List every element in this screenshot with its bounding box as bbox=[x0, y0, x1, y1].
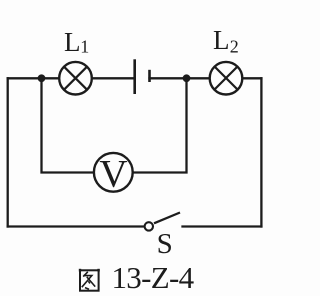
svg-text:2: 2 bbox=[230, 37, 239, 57]
battery cell: short plate bbox=[148, 70, 151, 82]
node junction A bbox=[38, 74, 46, 82]
wire bottom-left to switch bbox=[8, 225, 144, 227]
wire top-left from corner to battery long plate bbox=[8, 77, 134, 79]
caption character 图 bbox=[80, 269, 99, 291]
svg-text:1: 1 bbox=[80, 37, 89, 57]
switch S bbox=[145, 213, 180, 231]
svg-text:S: S bbox=[157, 228, 173, 260]
wire voltmeter branch bbox=[42, 78, 187, 172]
label L1 bbox=[64, 27, 89, 57]
wire left side bbox=[7, 78, 9, 226]
svg-text:V: V bbox=[99, 152, 127, 195]
wire right side bbox=[260, 78, 262, 226]
wire from battery short plate to right corner bbox=[150, 77, 262, 79]
node junction B bbox=[183, 74, 191, 82]
voltmeter V bbox=[94, 152, 133, 195]
label L2 bbox=[213, 25, 239, 57]
lamp L2 bbox=[210, 62, 243, 95]
wire bottom-right from switch to corner bbox=[183, 225, 262, 227]
svg-text:13-Z-4: 13-Z-4 bbox=[112, 260, 195, 295]
svg-text:L: L bbox=[213, 25, 230, 55]
battery cell: long plate bbox=[133, 59, 136, 94]
svg-text:L: L bbox=[64, 27, 81, 57]
lamp L1 bbox=[59, 62, 92, 95]
